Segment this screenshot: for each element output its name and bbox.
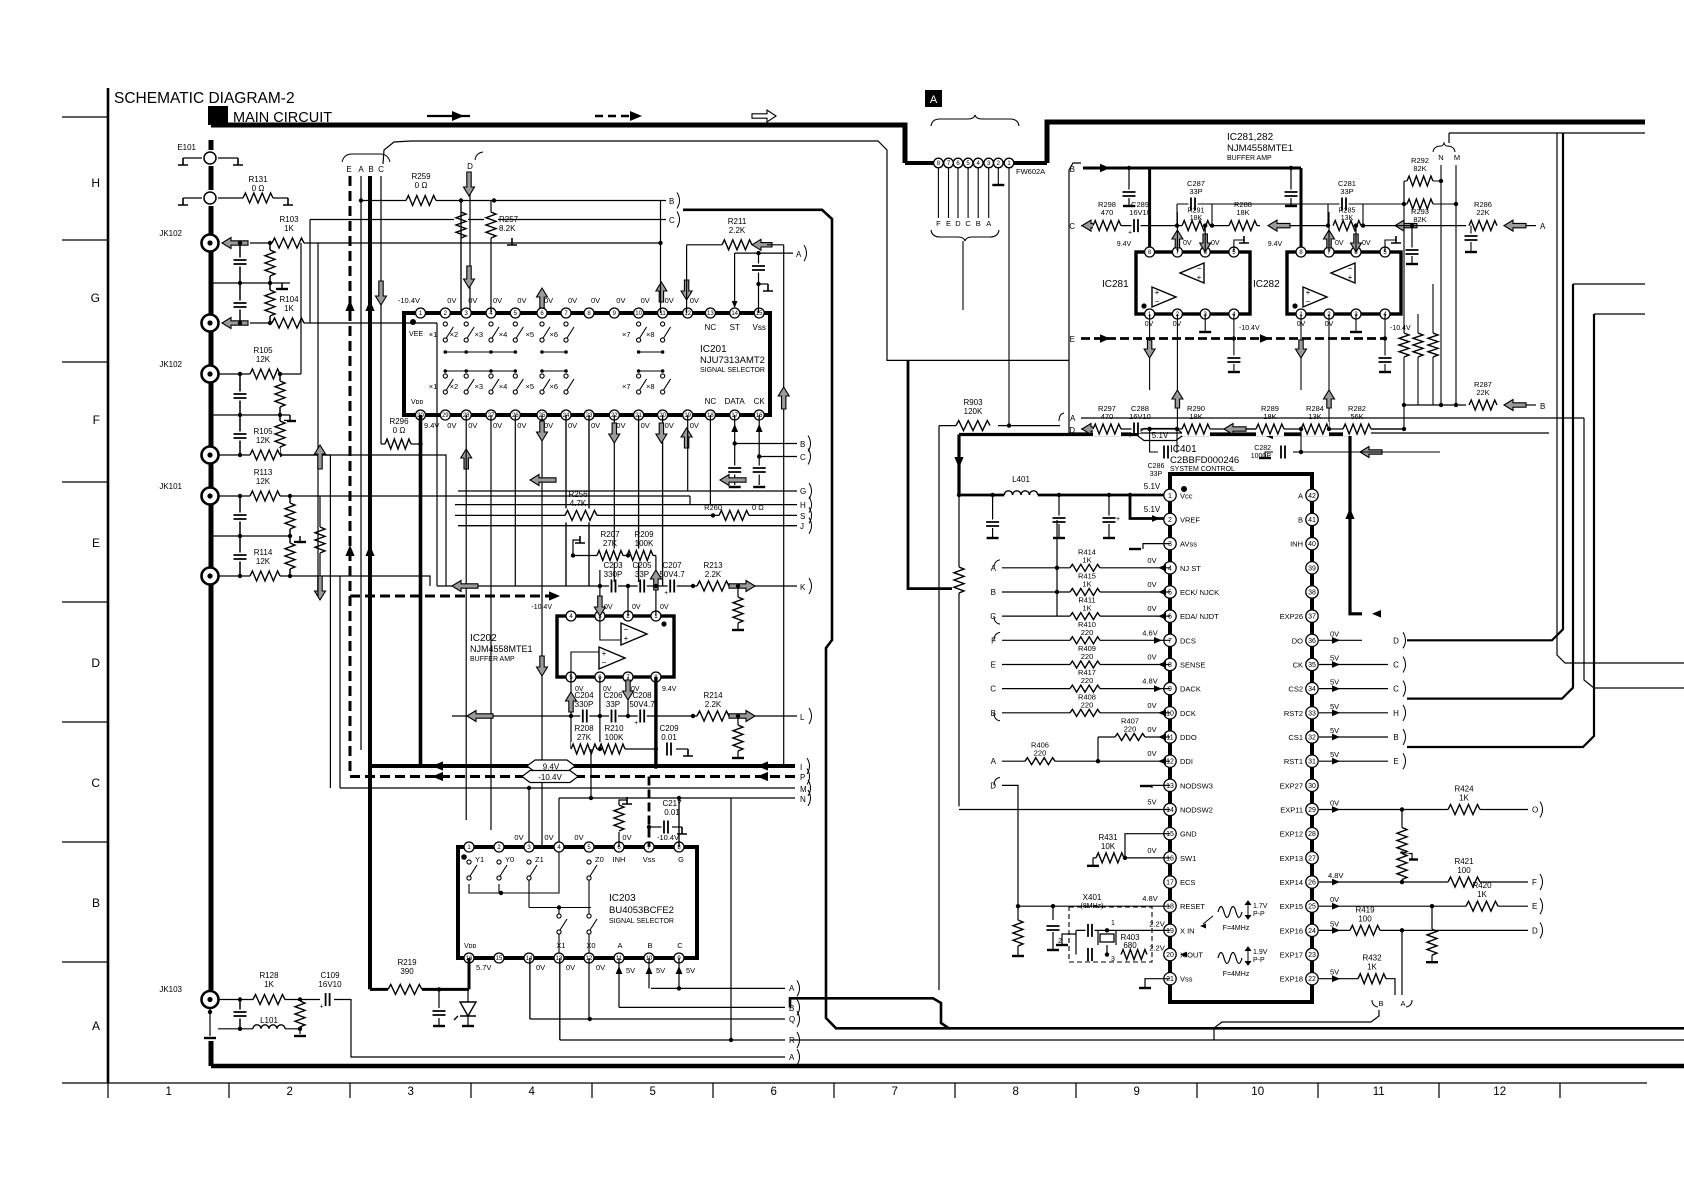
IC201 switch bank upper [443, 322, 447, 326]
svg-text:RESET: RESET [1180, 902, 1205, 911]
svg-text:0V: 0V [690, 296, 699, 305]
resistor R104 1K [238, 321, 242, 325]
svg-text:A: A [1540, 222, 1546, 231]
bottom ruler ticks [107, 1083, 109, 1098]
capacitor C206 33P [609, 712, 618, 720]
bottom ruler line [62, 1082, 1647, 1084]
svg-text:IC202: IC202 [470, 633, 497, 644]
svg-text:56K: 56K [1350, 412, 1363, 421]
arrow P row right [757, 772, 768, 781]
svg-text:L101: L101 [260, 1016, 278, 1025]
net B pin10 [648, 958, 650, 988]
resistor R114 12K [238, 574, 242, 578]
capacitor C289 16V10 [1132, 222, 1141, 230]
svg-text:A: A [991, 564, 997, 573]
wire rail for R414-411 [1056, 520, 1058, 616]
svg-text:0V: 0V [641, 421, 650, 430]
svg-text:26: 26 [1308, 880, 1316, 887]
svg-text:B: B [368, 165, 373, 174]
svg-text:C209: C209 [659, 724, 679, 733]
wire C109 down to A row [334, 1000, 785, 1058]
svg-text:Y1: Y1 [475, 855, 484, 864]
svg-text:R420: R420 [1472, 881, 1492, 890]
svg-text:22: 22 [1308, 976, 1316, 983]
resistor R406 220 [1002, 760, 1170, 762]
arrow pin22 down [613, 415, 615, 586]
svg-text:0V: 0V [447, 296, 456, 305]
svg-text:40: 40 [1308, 541, 1316, 548]
svg-text:DO: DO [1292, 636, 1303, 645]
capacitor C207 50V4.7 [668, 582, 677, 590]
bus 9.4V top horizontal [211, 125, 905, 163]
svg-text:2.2K: 2.2K [705, 570, 722, 579]
svg-text:R257: R257 [499, 215, 519, 224]
IC201 pin1 marker [410, 319, 416, 325]
capacitor IC281 pin4 [1232, 336, 1236, 340]
capacitor C filter3 polarized [1107, 493, 1111, 497]
svg-text:×5: ×5 [525, 330, 534, 339]
svg-text:B: B [991, 709, 996, 718]
svg-text:9.4V: 9.4V [424, 421, 439, 430]
bus B drop to IC281 [1148, 168, 1151, 252]
svg-text:27K: 27K [577, 733, 592, 742]
svg-text:5V: 5V [1330, 919, 1339, 928]
resistor load 3 [1432, 284, 1434, 405]
arrow B entry [1504, 400, 1526, 411]
svg-text:A: A [1298, 491, 1303, 500]
svg-text:−: − [1306, 297, 1311, 306]
svg-text:C: C [800, 453, 806, 462]
resistor R105 12K [218, 373, 301, 375]
IC203 inner bus upper [469, 852, 559, 893]
svg-text:16V10: 16V10 [1129, 412, 1151, 421]
svg-text:7: 7 [1168, 638, 1172, 645]
resistor R257 8.2K [490, 201, 492, 313]
svg-text:+: + [1306, 288, 1311, 297]
svg-text:H: H [91, 176, 100, 190]
wire thin top from title area to connector region [383, 141, 1069, 360]
svg-text:C: C [965, 219, 971, 228]
svg-text:-10.4V: -10.4V [1390, 325, 1411, 332]
ground NODSW3 [1152, 785, 1170, 788]
arrow trunk D down [464, 172, 475, 196]
svg-text:×7: ×7 [622, 382, 631, 391]
svg-text:FW602A: FW602A [1016, 167, 1045, 176]
net A lower row [651, 987, 785, 989]
svg-text:36: 36 [1308, 638, 1316, 645]
capacitor jack filter c1 [239, 243, 241, 283]
arrow C row mid [1268, 220, 1290, 231]
svg-text:A: A [1070, 414, 1076, 423]
svg-text:R213: R213 [703, 561, 723, 570]
wire IC282 pin7 col [1328, 212, 1330, 252]
arrow pin7 down [623, 680, 634, 700]
net C wire top [310, 219, 666, 221]
resistor R285 13K [1333, 219, 1361, 233]
wire column c [329, 455, 331, 788]
resistor R403 680 [1121, 948, 1147, 962]
svg-text:R256: R256 [568, 490, 588, 499]
net J wire [458, 525, 797, 527]
IC281 body [1136, 252, 1250, 314]
resistor jack r6 [289, 536, 291, 576]
resistor R211 2.2K [687, 244, 767, 246]
legend dashed arrow [595, 115, 630, 118]
svg-text:8.2K: 8.2K [499, 224, 516, 233]
op-amp IC282b [1303, 287, 1327, 307]
wire pin21 column down [638, 415, 640, 586]
svg-text:B: B [976, 219, 981, 228]
svg-text:12: 12 [1166, 759, 1174, 766]
capacitor reservoir [437, 987, 441, 991]
resistor R209 100K [627, 549, 653, 563]
resistor R287 22K [1404, 404, 1466, 406]
svg-text:×3: ×3 [474, 330, 483, 339]
svg-text:16: 16 [1166, 855, 1174, 862]
wire IC281 pin2 down [1176, 314, 1178, 429]
net Q row [530, 1018, 785, 1020]
svg-text:ECK/ NJCK: ECK/ NJCK [1180, 588, 1219, 597]
net DO row [1319, 639, 1362, 641]
svg-text:-10.4V: -10.4V [398, 296, 420, 305]
svg-text:0V: 0V [622, 833, 631, 842]
wire IC281 pin4 drop [1233, 314, 1235, 339]
IC203 signal selector body [458, 847, 697, 958]
svg-text:D: D [1393, 636, 1399, 645]
svg-text:39: 39 [1308, 565, 1316, 572]
resistor load 1 [1403, 204, 1405, 429]
svg-text:D: D [1532, 926, 1538, 935]
ground IC282 pin5 [1385, 240, 1396, 252]
svg-text:1K: 1K [284, 224, 294, 233]
svg-text:0V: 0V [1147, 725, 1156, 734]
sheet left border [107, 88, 110, 1083]
svg-text:R260: R260 [704, 503, 722, 512]
svg-text:5V: 5V [1330, 750, 1339, 759]
wire pin25 column down [541, 415, 543, 847]
arrow column up [315, 445, 326, 469]
svg-text:C: C [990, 685, 996, 694]
svg-text:×7: ×7 [622, 330, 631, 339]
net C wire mid [758, 415, 760, 485]
capacitor C282 1000P [1300, 429, 1302, 452]
svg-text:4.8V: 4.8V [1142, 677, 1157, 686]
resistor EXP15 pulldown [1431, 906, 1433, 930]
svg-text:14: 14 [1166, 807, 1174, 814]
IC201 lower switch bus [445, 370, 515, 372]
svg-text:R131: R131 [248, 175, 268, 184]
svg-text:33: 33 [1308, 710, 1316, 717]
svg-text:0V: 0V [493, 296, 502, 305]
arrow on 9.4V trunk [365, 300, 374, 311]
svg-text:5: 5 [649, 1086, 655, 1098]
svg-text:33P: 33P [1150, 471, 1163, 478]
svg-text:29: 29 [442, 413, 449, 419]
svg-text:−: − [624, 625, 629, 634]
bus dashed branch to IC202 [350, 595, 549, 598]
arrow C row right [1395, 220, 1417, 231]
capacitor C209 0.01 [665, 745, 674, 753]
svg-text:NJ ST: NJ ST [1180, 564, 1201, 573]
svg-text:+: + [1116, 516, 1120, 523]
IC201 switch bank lower [443, 374, 447, 378]
svg-text:330P: 330P [575, 700, 594, 709]
bus 5.1V [959, 433, 1350, 436]
resistor R408 220 [1002, 712, 1170, 714]
svg-text:0V: 0V [493, 421, 502, 430]
svg-text:+: + [1197, 273, 1202, 282]
svg-text:D: D [990, 781, 996, 790]
arrow pin19 up [681, 428, 692, 448]
svg-text:35: 35 [1308, 662, 1316, 669]
svg-text:5.1V: 5.1V [1144, 482, 1161, 491]
svg-text:E: E [92, 536, 100, 550]
wire right vertical D net top [1562, 133, 1564, 629]
svg-text:A: A [1400, 999, 1405, 1008]
svg-text:9.4V: 9.4V [1117, 241, 1132, 248]
svg-text:8: 8 [1012, 1086, 1018, 1098]
wire R114 down to K row [290, 576, 430, 586]
svg-text:680: 680 [1123, 941, 1137, 950]
net M row [340, 787, 795, 789]
svg-text:0V: 0V [468, 421, 477, 430]
svg-text:390: 390 [400, 967, 414, 976]
svg-text:+: + [1348, 273, 1353, 282]
svg-text:10K: 10K [1101, 842, 1116, 851]
svg-text:I: I [800, 763, 802, 772]
svg-text:F: F [1532, 878, 1537, 887]
net A row block [1081, 423, 1440, 425]
svg-text:JK103: JK103 [159, 985, 182, 994]
wire right vertical to bottom net [1565, 133, 1684, 663]
svg-text:B: B [1393, 733, 1398, 742]
arrow I row right [757, 761, 768, 770]
svg-text:R209: R209 [634, 530, 654, 539]
svg-text:(8MHz): (8MHz) [1081, 903, 1104, 910]
wire VREF branch [1130, 495, 1170, 519]
svg-text:×2: ×2 [450, 382, 459, 391]
svg-text:Z0: Z0 [595, 855, 604, 864]
svg-text:ECS: ECS [1180, 878, 1195, 887]
svg-text:12K: 12K [256, 477, 271, 486]
svg-text:R210: R210 [604, 724, 624, 733]
arrow IC282 pin7 up [1324, 230, 1335, 248]
arrow on dashed trunk [345, 300, 354, 311]
ground IC281 pin3 [1204, 314, 1206, 332]
connector JK102 second lower [202, 447, 219, 464]
svg-text:R296: R296 [389, 417, 409, 426]
ground L101 right [299, 1029, 301, 1034]
net CK row [1319, 663, 1388, 665]
svg-text:+: + [1128, 433, 1132, 440]
marker A black square [925, 90, 942, 107]
svg-text:9: 9 [1133, 1086, 1139, 1098]
svg-text:R431: R431 [1098, 833, 1118, 842]
svg-text:D: D [1069, 426, 1075, 435]
wire pin12 down to Q row [588, 958, 590, 1019]
IC203 switch Y1 [467, 860, 471, 864]
svg-text:B: B [1070, 165, 1075, 174]
svg-text:100K: 100K [605, 733, 624, 742]
svg-text:0V: 0V [660, 604, 669, 611]
svg-text:0V: 0V [1147, 701, 1156, 710]
bus I 9.4V row [370, 764, 795, 768]
capacitor B bypass 1 [1127, 166, 1131, 170]
svg-text:E: E [946, 219, 951, 228]
resistor R207 27K [573, 555, 656, 557]
svg-text:0V: 0V [447, 421, 456, 430]
svg-text:C206: C206 [603, 691, 623, 700]
svg-text:B: B [1540, 402, 1545, 411]
svg-text:2.2K: 2.2K [705, 700, 722, 709]
connector JK102 second upper [202, 366, 219, 383]
svg-text:5.1V: 5.1V [1144, 505, 1161, 514]
wire loads to D row [1404, 428, 1456, 430]
net K row [437, 585, 797, 587]
svg-text:F: F [936, 219, 941, 228]
svg-text:1K: 1K [1459, 794, 1469, 803]
svg-text:A: A [92, 1019, 100, 1033]
resistor R256 4.7K [565, 508, 597, 522]
svg-text:IC282: IC282 [1253, 279, 1280, 290]
capacitor C203 330P [609, 582, 618, 590]
svg-text:C207: C207 [662, 561, 682, 570]
svg-text:0V: 0V [1362, 240, 1371, 247]
title block square [208, 106, 228, 125]
net C pin9 [678, 958, 680, 988]
svg-text:0V: 0V [690, 421, 699, 430]
svg-text:330P: 330P [604, 570, 623, 579]
wire IC281 pin6 col [1204, 226, 1206, 252]
svg-text:18: 18 [1166, 904, 1174, 911]
svg-text:12K: 12K [256, 557, 271, 566]
IC202 bottom pins [566, 672, 576, 682]
net EXP18 row R432 [1319, 978, 1360, 980]
svg-text:1: 1 [1168, 493, 1172, 500]
svg-text:120K: 120K [964, 407, 983, 416]
wire IC282 pin4 drop [1384, 314, 1386, 339]
IC201 signal selector body [404, 313, 770, 415]
bus BC group right [683, 210, 950, 1029]
wire R211 corner down [767, 244, 784, 246]
svg-text:0V: 0V [544, 833, 553, 842]
dashed Vss drop [648, 777, 651, 848]
svg-text:14: 14 [731, 311, 738, 317]
svg-text:CK: CK [754, 397, 766, 406]
net A pin11 [618, 958, 620, 1007]
IC203 switch Y0 [497, 860, 501, 864]
svg-text:E: E [991, 660, 996, 669]
IC203 bottom pins 16-9 [464, 953, 474, 963]
svg-text:×6: ×6 [549, 382, 558, 391]
svg-text:12: 12 [684, 311, 691, 317]
arrow R211 row [752, 239, 772, 250]
bus label 9.4V [527, 760, 575, 772]
capacitor pin17 bypass [731, 466, 739, 475]
resistor R431 10K [1096, 851, 1124, 865]
IC281 bottom pins [1145, 309, 1155, 319]
svg-text:C282: C282 [1254, 445, 1271, 452]
bus pin8 down to 9.4V [654, 677, 657, 766]
svg-text:0V: 0V [544, 421, 553, 430]
svg-text:5V: 5V [1330, 702, 1339, 711]
svg-text:R285: R285 [1339, 208, 1356, 215]
svg-text:−: − [1348, 264, 1353, 273]
IC202 buffer amp body [557, 616, 674, 677]
svg-text:+: + [624, 634, 629, 643]
IC203 switch X0 [587, 914, 591, 918]
svg-text:R421: R421 [1454, 857, 1474, 866]
net B row thick [1083, 167, 1151, 170]
wire N into pin4 [558, 798, 560, 847]
net NODSW2 from supply [959, 809, 1170, 811]
resistor jack r4 [279, 415, 281, 455]
wire pin23 column down [588, 415, 590, 586]
svg-text:-10.4V: -10.4V [531, 604, 552, 611]
svg-text:5V: 5V [1330, 678, 1339, 687]
svg-text:9.4V: 9.4V [662, 686, 677, 693]
legend open arrow [752, 110, 776, 122]
svg-text:BUFFER AMP: BUFFER AMP [1227, 155, 1272, 162]
svg-text:X1: X1 [556, 941, 565, 950]
svg-text:220: 220 [1081, 652, 1094, 661]
wire A down [1400, 1010, 1402, 1040]
svg-text:S: S [800, 512, 805, 521]
arrow 5.1V bus [1262, 430, 1273, 439]
resistor R288 18K [1210, 225, 1260, 227]
svg-text:×1: ×1 [429, 330, 438, 339]
resistor R290 18K [1182, 422, 1210, 436]
svg-text:G: G [678, 855, 684, 864]
svg-text:NC: NC [705, 323, 717, 332]
capacitor IC282 pin4 [1383, 336, 1387, 340]
net G wire [458, 490, 797, 492]
svg-text:12K: 12K [256, 355, 271, 364]
svg-text:13K: 13K [1341, 215, 1354, 222]
resistor R409 220 [1002, 663, 1170, 665]
svg-text:J: J [800, 522, 804, 531]
svg-text:N: N [800, 795, 806, 804]
svg-text:18K: 18K [1263, 412, 1276, 421]
svg-text:50V4.7: 50V4.7 [629, 700, 655, 709]
resistor R291 18K [1182, 219, 1210, 233]
inductor L401 [959, 494, 1170, 497]
ground stub R207 row [573, 540, 580, 556]
svg-text:IC203: IC203 [609, 893, 636, 904]
IC203 switch Z1 [527, 860, 531, 864]
arrow P row left [432, 772, 443, 781]
wire pin28 column down [465, 415, 467, 820]
wire pin20 column down [662, 415, 664, 586]
svg-text:0.01: 0.01 [664, 808, 680, 817]
svg-text:R208: R208 [574, 724, 594, 733]
svg-text:41: 41 [1308, 517, 1316, 524]
op-amp IC202a [621, 623, 647, 645]
svg-text:DATA: DATA [725, 397, 746, 406]
svg-text:25: 25 [1308, 904, 1316, 911]
arrow C row [1082, 220, 1104, 231]
svg-text:A: A [991, 757, 997, 766]
capacitor JK103 filter [239, 1000, 241, 1029]
net C row [1081, 225, 1182, 227]
resistor JK103 load [299, 1000, 301, 1029]
connector JK102 lower [202, 315, 219, 332]
svg-text:X IN: X IN [1180, 926, 1195, 935]
svg-text:R214: R214 [703, 691, 723, 700]
svg-text:5V: 5V [1330, 653, 1339, 662]
arrow IC281 pin7 up [1172, 230, 1183, 248]
svg-text:BUFFER AMP: BUFFER AMP [470, 656, 515, 663]
